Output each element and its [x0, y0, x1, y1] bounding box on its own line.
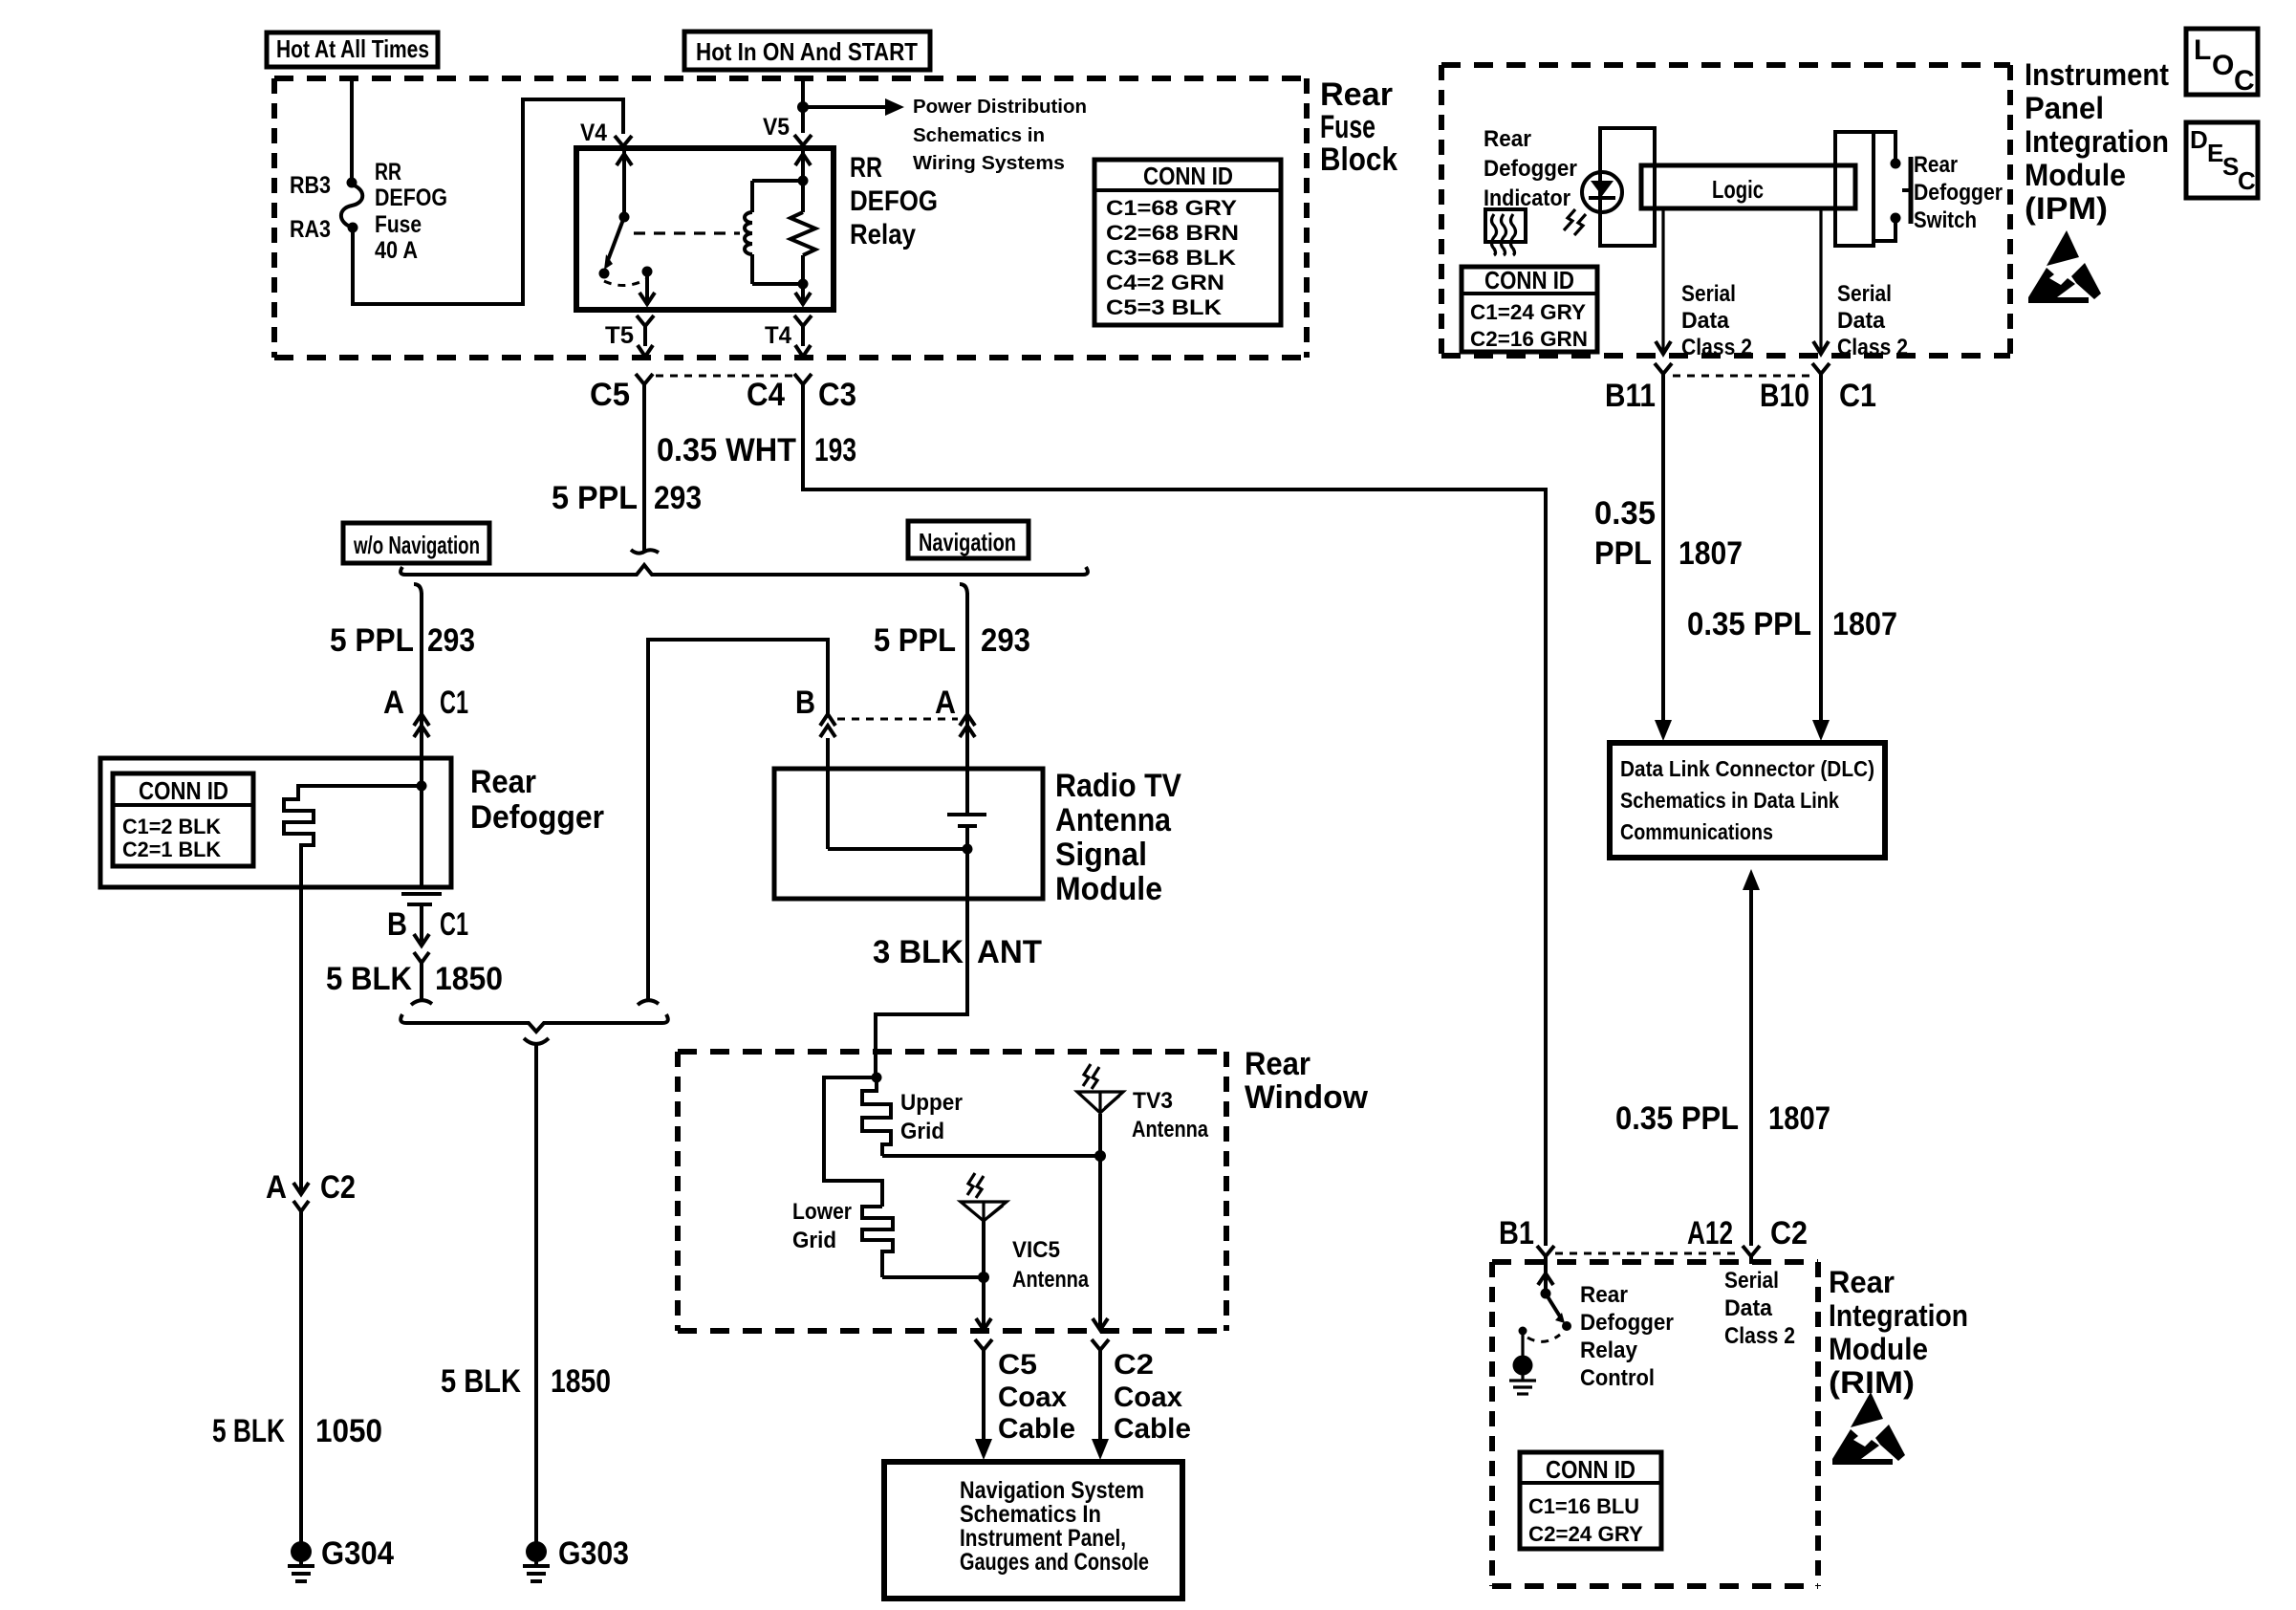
- svg-text:Cable: Cable: [998, 1413, 1075, 1445]
- rear defogger switch button: [1902, 157, 1911, 224]
- wire 5 PPL 293 to antenna module A: [965, 593, 969, 738]
- svg-text:C2=68 BRN: C2=68 BRN: [1106, 221, 1239, 245]
- relay resistor: [791, 181, 815, 284]
- connector A/C2: [293, 1183, 309, 1219]
- svg-text:Defogger: Defogger: [470, 799, 604, 836]
- svg-text:C2=16 GRN: C2=16 GRN: [1470, 327, 1588, 351]
- svg-text:Class 2: Class 2: [1724, 1323, 1795, 1349]
- svg-text:Rear: Rear: [1320, 76, 1393, 113]
- note Data Link Connector DLC Schematics: [1620, 756, 1874, 844]
- wire 5 PPL 293 to Rear Defogger: [420, 593, 423, 738]
- connector C5: [636, 374, 653, 384]
- svg-text:C2: C2: [1770, 1215, 1808, 1251]
- svg-text:Serial: Serial: [1837, 281, 1892, 307]
- svg-text:E: E: [2207, 139, 2223, 167]
- svg-text:5 PPL: 5 PPL: [874, 622, 956, 659]
- svg-text:Data: Data: [1837, 308, 1886, 334]
- svg-text:Rear: Rear: [1245, 1046, 1310, 1082]
- wire lower grid to VIC5: [882, 1275, 984, 1279]
- wire 5 BLK 1050 to G304: [299, 1219, 303, 1543]
- Logic box: [1641, 165, 1855, 208]
- IPM right block: [1835, 132, 1874, 246]
- svg-text:Data: Data: [1724, 1295, 1773, 1321]
- svg-text:(IPM): (IPM): [2025, 191, 2108, 226]
- note Navigation System Schematics In Instrument Panel Gauges and Console: [960, 1477, 1149, 1576]
- dashed switch arc RIM: [1527, 1335, 1560, 1341]
- svg-text:B: B: [387, 906, 407, 943]
- indicator icon: [1485, 209, 1526, 255]
- svg-text:Radio TV: Radio TV: [1055, 768, 1181, 804]
- svg-text:CONN ID: CONN ID: [139, 776, 228, 805]
- svg-text:5 BLK: 5 BLK: [441, 1363, 521, 1400]
- connector C4: [794, 374, 812, 384]
- relay coil mechanical dashed link: [634, 231, 740, 234]
- svg-text:193: 193: [814, 432, 856, 468]
- Rear Fuse Block dashed border: [274, 78, 1307, 358]
- dashed connector line B1-A12: [1555, 1252, 1742, 1255]
- Navigation System box: [884, 1462, 1182, 1599]
- connector B10/C1: [1812, 363, 1830, 381]
- svg-text:Signal: Signal: [1055, 837, 1147, 873]
- TV3 antenna: [1077, 1092, 1123, 1162]
- svg-text:C1: C1: [440, 906, 468, 943]
- connector T4: [794, 315, 812, 357]
- label Upper Grid: [900, 1090, 963, 1144]
- splice bus wire end hook: [631, 550, 659, 554]
- wire 5 BLK 1850 to G303: [534, 1044, 538, 1543]
- svg-text:G304: G304: [321, 1535, 394, 1572]
- wire upper grid to TV3: [882, 1154, 1100, 1158]
- svg-text:S: S: [2222, 152, 2239, 181]
- Rear Window dashed box: [678, 1052, 1226, 1331]
- label Rear Window: [1245, 1046, 1369, 1116]
- defogger case interface bars: [401, 894, 442, 904]
- svg-text:Integration: Integration: [2025, 124, 2169, 159]
- svg-text:Antenna: Antenna: [1132, 1117, 1209, 1142]
- label Serial Data Class 2 left: [1681, 281, 1752, 360]
- svg-text:L: L: [2194, 34, 2211, 66]
- svg-text:RR: RR: [375, 159, 401, 185]
- svg-text:VIC5: VIC5: [1012, 1237, 1060, 1263]
- svg-text:Instrument Panel,: Instrument Panel,: [960, 1525, 1126, 1552]
- ESD symbol RIM: [1832, 1392, 1905, 1465]
- svg-text:Cable: Cable: [1114, 1413, 1191, 1445]
- svg-text:1850: 1850: [435, 961, 503, 997]
- svg-text:C4=2 GRN: C4=2 GRN: [1106, 271, 1224, 294]
- svg-text:40 A: 40 A: [375, 237, 418, 264]
- antenna module internals: [828, 769, 986, 899]
- lower grid element: [862, 1207, 893, 1277]
- svg-text:Logic: Logic: [1712, 175, 1764, 204]
- svg-text:Class 2: Class 2: [1681, 335, 1752, 360]
- svg-text:Coax: Coax: [998, 1382, 1067, 1413]
- connector C5 coax: [975, 1339, 992, 1358]
- svg-text:Schematics in: Schematics in: [913, 125, 1045, 146]
- svg-text:Schematics in Data Link: Schematics in Data Link: [1620, 788, 1839, 813]
- svg-text:Serial: Serial: [1724, 1268, 1779, 1294]
- label box Hot In ON And START: [684, 32, 930, 70]
- label TV3 Antenna: [1132, 1088, 1209, 1142]
- wire B10 0.35 PPL 1807 to DLC: [1812, 381, 1830, 741]
- svg-text:Module: Module: [1829, 1332, 1928, 1366]
- VIC5 radio waves: [967, 1173, 984, 1198]
- connector C2 coax: [1092, 1339, 1109, 1358]
- wire to Power Distribution: [803, 105, 885, 109]
- svg-text:C4: C4: [747, 377, 785, 413]
- ESD symbol IPM: [2028, 230, 2101, 303]
- VIC5 antenna: [961, 1202, 1007, 1283]
- svg-text:PPL: PPL: [1594, 535, 1652, 572]
- label Instrument Panel Integration Module (IPM): [2025, 57, 2169, 226]
- svg-text:C3=68 BLK: C3=68 BLK: [1106, 246, 1236, 270]
- connector A/C1 double chevron: [414, 714, 429, 737]
- ground G303: [523, 1541, 550, 1581]
- label box Navigation: [908, 521, 1029, 558]
- svg-text:293: 293: [654, 480, 702, 516]
- svg-text:0.35 PPL: 0.35 PPL: [1615, 1100, 1739, 1137]
- wire from Hot At All Times down to fuse: [350, 80, 354, 183]
- svg-text:1807: 1807: [1832, 606, 1897, 642]
- CONN ID table Rear Defogger: [113, 773, 253, 866]
- svg-text:Antenna: Antenna: [1055, 802, 1172, 838]
- svg-text:B1: B1: [1499, 1215, 1534, 1251]
- IPM left block: [1600, 128, 1655, 246]
- svg-text:5 PPL: 5 PPL: [330, 622, 414, 659]
- svg-text:V5: V5: [763, 114, 790, 141]
- svg-text:ANT: ANT: [977, 934, 1042, 970]
- svg-text:Communications: Communications: [1620, 819, 1773, 844]
- dashed connector line C5-C4: [656, 375, 792, 378]
- svg-text:V4: V4: [580, 120, 607, 146]
- svg-text:CONN ID: CONN ID: [1484, 266, 1574, 294]
- svg-text:Instrument: Instrument: [2025, 57, 2169, 92]
- connector A double chevron: [960, 714, 975, 737]
- svg-text:Module: Module: [2025, 158, 2126, 192]
- svg-text:Antenna: Antenna: [1012, 1267, 1090, 1293]
- svg-text:Rear: Rear: [1914, 152, 1958, 178]
- svg-text:1850: 1850: [551, 1363, 611, 1400]
- svg-text:Rear: Rear: [1580, 1282, 1628, 1308]
- svg-text:Wiring Systems: Wiring Systems: [913, 153, 1065, 174]
- svg-text:C2=1 BLK: C2=1 BLK: [122, 838, 221, 861]
- relay coil top wire: [752, 176, 809, 186]
- label C5 Coax Cable: [998, 1349, 1075, 1445]
- label Rear Defogger: [470, 764, 604, 836]
- svg-text:D: D: [2190, 125, 2208, 154]
- svg-text:Defogger: Defogger: [1914, 180, 2003, 206]
- svg-text:B: B: [795, 685, 815, 721]
- splice bus 5 BLK 1850: [401, 1000, 668, 1044]
- connector B11: [1655, 363, 1672, 381]
- relay coil bottom wire: [752, 279, 809, 290]
- svg-text:CONN ID: CONN ID: [1143, 162, 1233, 190]
- svg-text:5 PPL: 5 PPL: [552, 480, 638, 516]
- TV3 radio waves: [1083, 1064, 1099, 1089]
- svg-text:C2: C2: [320, 1169, 356, 1206]
- defogger grid element: [284, 786, 422, 887]
- svg-text:Relay: Relay: [1580, 1338, 1638, 1363]
- CONN ID table IPM: [1462, 266, 1597, 352]
- label 0.35 PPL stacked: [1594, 495, 1656, 572]
- wire C5 to splice: [642, 384, 646, 553]
- svg-text:Navigation: Navigation: [919, 528, 1016, 556]
- wire defogger ground leg: [299, 887, 303, 1191]
- svg-text:Switch: Switch: [1914, 207, 1977, 233]
- label Rear Fuse Block: [1320, 76, 1397, 178]
- svg-text:A: A: [266, 1169, 287, 1206]
- note Power Distribution Schematics in Wiring Systems: [913, 97, 1087, 174]
- svg-text:T4: T4: [765, 322, 791, 349]
- label box LOC: [2186, 29, 2258, 97]
- svg-text:C5=3 BLK: C5=3 BLK: [1106, 295, 1222, 319]
- relay box RR DEFOG Relay: [576, 148, 834, 310]
- svg-text:Fuse: Fuse: [375, 211, 422, 238]
- svg-text:5 BLK: 5 BLK: [212, 1413, 285, 1449]
- splice exit hook Navigation: [960, 584, 967, 595]
- Rear Defogger box: [100, 758, 451, 887]
- svg-text:O: O: [2212, 50, 2234, 81]
- svg-text:Rear: Rear: [470, 764, 536, 800]
- svg-text:5 BLK: 5 BLK: [326, 961, 412, 997]
- node A/C1 inside defogger: [417, 781, 427, 792]
- svg-text:TV3: TV3: [1133, 1088, 1173, 1114]
- svg-text:293: 293: [981, 622, 1030, 659]
- svg-text:C1=24 GRY: C1=24 GRY: [1470, 300, 1586, 324]
- svg-text:B10: B10: [1760, 378, 1809, 414]
- wire B up and over to 1850 splice: [648, 640, 828, 1000]
- svg-text:Rear: Rear: [1829, 1265, 1895, 1299]
- CONN ID table fuse block: [1094, 160, 1281, 325]
- label Rear Defogger Relay Control: [1580, 1282, 1674, 1391]
- CONN ID table RIM: [1520, 1452, 1661, 1549]
- splice bus under C5: [401, 565, 1088, 575]
- wire A12 0.35 PPL 1807 up to DLC: [1743, 869, 1760, 1246]
- svg-text:RR: RR: [850, 152, 882, 184]
- wire B11 0.35 PPL 1807 to DLC: [1655, 381, 1672, 741]
- svg-text:C5: C5: [998, 1349, 1037, 1381]
- svg-text:w/o Navigation: w/o Navigation: [353, 531, 480, 559]
- svg-text:3 BLK: 3 BLK: [873, 934, 964, 970]
- svg-text:Relay: Relay: [850, 219, 916, 250]
- svg-text:Navigation System: Navigation System: [960, 1477, 1144, 1504]
- relay switch common from V4: [617, 151, 632, 223]
- wire into Rear Defogger: [420, 738, 423, 758]
- svg-text:Data Link Connector (DLC): Data Link Connector (DLC): [1620, 756, 1874, 781]
- svg-text:Module: Module: [1055, 871, 1162, 907]
- label Lower Grid: [792, 1199, 852, 1253]
- svg-text:Class 2: Class 2: [1837, 335, 1908, 360]
- label Serial Data Class 2 right: [1837, 281, 1908, 360]
- connector B1: [1537, 1246, 1554, 1264]
- svg-text:C1=16 BLU: C1=16 BLU: [1528, 1494, 1639, 1518]
- Radio TV Antenna Signal Module box: [774, 769, 1043, 899]
- splice exit hook w/o Navigation: [414, 584, 422, 595]
- RIM dashed box: [1492, 1262, 1818, 1586]
- relay switch mechanical dashed arc: [604, 279, 646, 286]
- svg-text:C2: C2: [1114, 1349, 1154, 1381]
- svg-text:Hot In ON And START: Hot In ON And START: [696, 37, 918, 66]
- DLC box: [1610, 743, 1885, 858]
- svg-text:0.35: 0.35: [1594, 495, 1656, 532]
- svg-text:Block: Block: [1320, 141, 1397, 178]
- svg-text:C1: C1: [1839, 378, 1876, 414]
- connector B double chevron: [820, 714, 835, 737]
- svg-text:C3: C3: [818, 377, 856, 413]
- svg-text:Defogger: Defogger: [1580, 1310, 1674, 1336]
- label Rear Defogger Switch: [1914, 152, 2003, 233]
- svg-text:C2=24 GRY: C2=24 GRY: [1528, 1522, 1643, 1546]
- svg-text:C1=2 BLK: C1=2 BLK: [122, 815, 221, 838]
- relay switch output contact: [639, 267, 655, 306]
- svg-text:Coax: Coax: [1114, 1382, 1182, 1413]
- svg-text:DEFOG: DEFOG: [850, 185, 938, 217]
- svg-text:RA3: RA3: [290, 216, 331, 243]
- wire A stub into module: [965, 738, 969, 769]
- svg-text:C: C: [2238, 166, 2256, 195]
- svg-text:RB3: RB3: [290, 172, 331, 199]
- connector T5: [637, 315, 654, 357]
- wire 5 BLK 1850 to splice: [420, 970, 423, 1000]
- svg-text:B11: B11: [1605, 378, 1656, 414]
- svg-text:Data: Data: [1681, 308, 1730, 334]
- svg-text:Hot At All Times: Hot At All Times: [276, 34, 429, 63]
- label RR DEFOG Fuse 40 A: [375, 159, 447, 264]
- node on V5 wire: [797, 101, 809, 113]
- svg-text:Schematics In: Schematics In: [960, 1501, 1101, 1528]
- fuse RR DEFOG Fuse 40 A: [341, 178, 362, 233]
- svg-text:Defogger: Defogger: [1484, 156, 1577, 182]
- svg-text:Panel: Panel: [2025, 91, 2104, 125]
- svg-text:0.35 WHT: 0.35 WHT: [657, 432, 796, 468]
- wire C2 coax to Navigation System box: [1092, 1358, 1109, 1460]
- svg-text:C1: C1: [440, 685, 468, 721]
- LED rear defogger indicator: [1582, 172, 1622, 212]
- svg-text:Integration: Integration: [1829, 1298, 1968, 1333]
- wire A/C1 through defogger: [420, 758, 423, 887]
- label RR DEFOG Relay: [850, 152, 938, 250]
- svg-text:Indicator: Indicator: [1484, 185, 1570, 211]
- wire from fuse to relay V4: [353, 99, 623, 304]
- svg-text:Window: Window: [1245, 1079, 1369, 1116]
- svg-text:Rear: Rear: [1484, 126, 1531, 152]
- label VIC5 Antenna: [1012, 1237, 1090, 1293]
- svg-text:Gauges and Console: Gauges and Console: [960, 1549, 1149, 1576]
- connector B/C1: [414, 906, 429, 970]
- rear defogger switch wiring: [1854, 132, 1901, 241]
- wire B stub into module: [826, 738, 830, 769]
- svg-text:0.35 PPL: 0.35 PPL: [1687, 606, 1811, 642]
- connector V4: [615, 136, 632, 151]
- wire C3 0.35 WHT 193 to RIM B1: [803, 384, 1546, 1246]
- svg-text:Control: Control: [1580, 1365, 1655, 1391]
- label box w/o Navigation: [343, 523, 489, 563]
- wire VIC5 to C5 coax: [976, 1277, 991, 1330]
- relay V5 entry: [795, 151, 811, 181]
- svg-text:CONN ID: CONN ID: [1546, 1455, 1635, 1484]
- connector A12/C2: [1743, 1246, 1760, 1264]
- svg-text:293: 293: [427, 622, 475, 659]
- svg-text:A: A: [935, 685, 956, 721]
- rear defogger relay control switch: [1538, 1264, 1571, 1331]
- svg-text:Grid: Grid: [792, 1228, 836, 1253]
- connector V5: [794, 135, 812, 150]
- svg-text:Power Distribution: Power Distribution: [913, 97, 1087, 118]
- svg-text:C: C: [2234, 65, 2255, 97]
- svg-text:Grid: Grid: [900, 1119, 944, 1144]
- svg-text:C1=68 GRY: C1=68 GRY: [1106, 196, 1237, 220]
- wire serial data B10 inside IPM: [1813, 208, 1829, 354]
- label C2 Coax Cable: [1114, 1349, 1191, 1445]
- IPM dashed box: [1441, 65, 2010, 356]
- relay coil: [745, 181, 752, 284]
- svg-text:1807: 1807: [1768, 1100, 1830, 1137]
- relay output to T4: [795, 284, 811, 305]
- svg-text:G303: G303: [558, 1535, 629, 1572]
- relay switch arm: [599, 217, 625, 279]
- wire V5 from Hot In ON And START: [801, 80, 805, 133]
- switch contact and ground: [1509, 1327, 1536, 1395]
- dashed connector line B-A: [837, 718, 958, 721]
- svg-text:A12: A12: [1687, 1215, 1733, 1251]
- node ANT entry: [872, 1073, 882, 1083]
- wire branch to lower grid: [824, 1077, 882, 1207]
- wire serial data B11 inside IPM: [1656, 208, 1671, 354]
- svg-text:1807: 1807: [1679, 535, 1743, 572]
- svg-text:A: A: [383, 685, 404, 721]
- label Rear Defogger Indicator: [1484, 126, 1577, 211]
- svg-text:DEFOG: DEFOG: [375, 185, 447, 211]
- label Rear Integration Module (RIM): [1829, 1265, 1968, 1400]
- svg-text:Upper: Upper: [900, 1090, 963, 1116]
- upper grid element: [862, 1077, 891, 1156]
- wire TV3 to C2 coax: [1093, 1156, 1108, 1330]
- label box Hot At All Times: [267, 33, 438, 67]
- svg-text:1050: 1050: [315, 1413, 382, 1449]
- wire 3 BLK ANT: [876, 899, 967, 1077]
- svg-text:Serial: Serial: [1681, 281, 1736, 307]
- label box DESC: [2186, 122, 2258, 198]
- svg-text:Fuse: Fuse: [1320, 109, 1375, 145]
- LED emission arrows: [1564, 209, 1586, 235]
- dashed connector line B11-B10: [1673, 375, 1812, 378]
- svg-text:T5: T5: [605, 322, 634, 349]
- label Radio TV Antenna Signal Module: [1055, 768, 1181, 907]
- wire C5 coax to Navigation System box: [975, 1358, 992, 1460]
- label Serial Data Class 2 RIM: [1724, 1268, 1795, 1349]
- svg-text:C5: C5: [590, 377, 630, 413]
- svg-text:Lower: Lower: [792, 1199, 852, 1225]
- ground G304: [288, 1541, 314, 1581]
